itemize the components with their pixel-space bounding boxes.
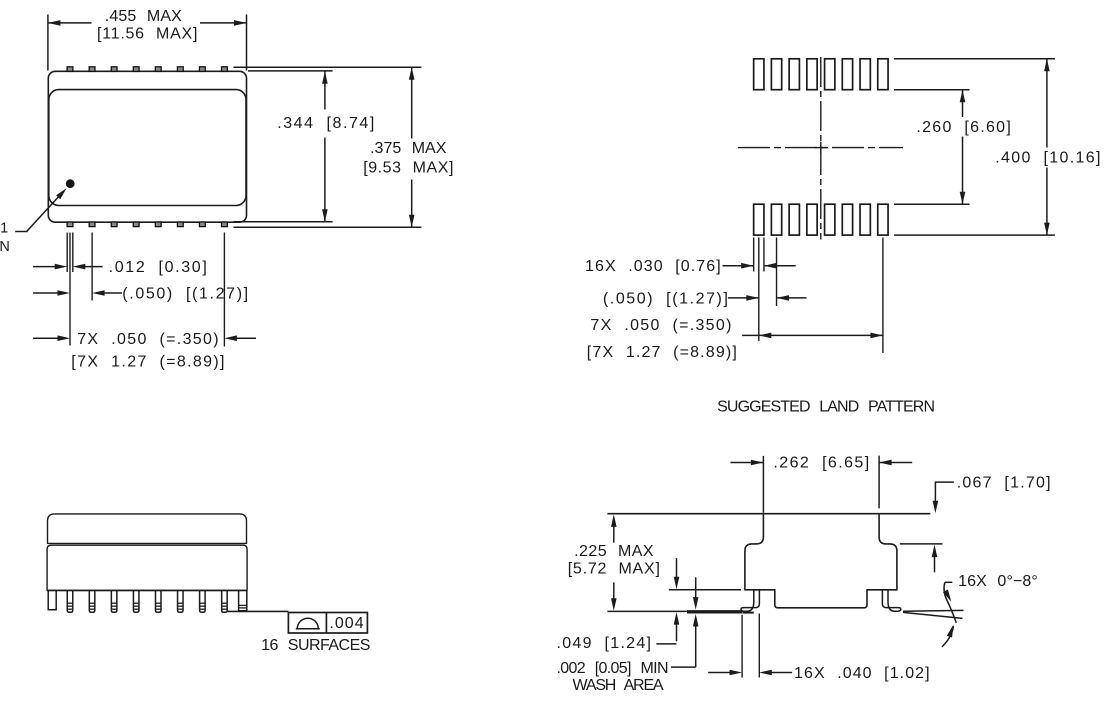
dim .067 leader — [933, 482, 954, 513]
land pattern bottom row pads — [754, 204, 888, 235]
dim .040 text — [794, 665, 930, 682]
dim .002 upper arrow — [693, 577, 699, 609]
dim .040 ext left — [741, 615, 743, 678]
dim .375 dimension line + arrows — [409, 67, 415, 227]
pin 1 identifier dot — [66, 179, 75, 188]
dim .049 text — [557, 635, 652, 652]
dim land 7X 1.27 text — [587, 344, 737, 361]
land ext pad1 left — [753, 238, 755, 272]
svg-text:.262 [6.65]: .262 [6.65] — [773, 455, 869, 472]
land ext line bottom-outer — [894, 234, 1055, 236]
land pattern center cross — [815, 142, 827, 154]
dim .225 lower arrow — [611, 582, 617, 610]
land pattern horizontal centerline — [738, 147, 903, 149]
dim .225 text — [574, 543, 654, 560]
svg-text:16 SURFACES: 16 SURFACES — [261, 637, 370, 654]
svg-text:[5.72 MAX]: [5.72 MAX] — [568, 560, 660, 577]
pin 1 leader arrow — [15, 186, 68, 231]
top view package lid outline — [49, 90, 246, 206]
dim .344 text — [277, 115, 374, 132]
svg-text:[7X 1.27 (=8.89)]: [7X 1.27 (=8.89)] — [71, 354, 224, 371]
side view lid outline — [48, 514, 247, 544]
land pattern top row pads — [754, 59, 888, 90]
dim .455 extension line right — [246, 15, 248, 71]
dim land pitch text — [603, 290, 728, 307]
dim pitch (.050) text — [122, 286, 248, 303]
end view right gull-wing lead — [882, 590, 900, 611]
ext line pad1 left edge — [66, 233, 68, 273]
dim 16X .030 text — [585, 258, 721, 275]
angle dim upper arc — [943, 582, 956, 623]
dim .002 text — [557, 660, 669, 677]
land ext pad1 center — [758, 238, 760, 342]
svg-text:(.050) [(1.27)]: (.050) [(1.27)] — [603, 290, 728, 307]
dim .455 dimension line + arrows — [48, 20, 247, 26]
lead angle 0 deg line — [903, 609, 964, 612]
ext line pad8 center — [223, 233, 225, 347]
dim .455 extension line left — [47, 15, 49, 71]
ext line pad2 center — [91, 233, 93, 301]
svg-text:[7X 1.27 (=8.89)]: [7X 1.27 (=8.89)] — [587, 344, 737, 361]
dim .260 text — [916, 119, 1010, 136]
pin 1 label text (cropped) — [0, 221, 10, 256]
flatness leader line — [227, 610, 288, 612]
dim .344 dimension line + arrows — [322, 71, 328, 222]
dim .260 dimension line + arrows — [960, 90, 966, 205]
dim .455 mm text — [97, 25, 197, 42]
svg-text:.049 [1.24]: .049 [1.24] — [557, 635, 652, 652]
svg-text:.004: .004 — [329, 615, 363, 632]
side view gull-wing pins 1-8 — [67, 590, 227, 612]
dim 7X .050 arrows — [33, 335, 256, 341]
top view pads pins 9-16 (top edge) — [67, 67, 227, 72]
dim .375 text — [370, 140, 447, 157]
dim .002 connector — [671, 666, 696, 668]
svg-text:SUGGESTED LAND PATTERN: SUGGESTED LAND PATTERN — [717, 399, 935, 416]
side view left end pin — [48, 590, 56, 609]
svg-text:.455 MAX: .455 MAX — [105, 8, 182, 25]
dim pitch (.050) arrows — [33, 290, 122, 296]
title SUGGESTED LAND PATTERN — [717, 399, 935, 416]
dim land 7X dimension line + arrows — [742, 333, 883, 339]
dim .400 text — [995, 149, 1100, 166]
dim .067 text — [957, 475, 1051, 492]
dim .225 mm text — [568, 560, 660, 577]
dim .049 connector — [656, 643, 676, 645]
flatness feature control frame — [288, 613, 367, 634]
svg-text:16X 0°−8°: 16X 0°−8° — [958, 573, 1038, 590]
svg-text:.344 [8.74]: .344 [8.74] — [277, 115, 374, 132]
WASH AREA text — [573, 677, 664, 694]
svg-text:(.050) [(1.27)]: (.050) [(1.27)] — [122, 286, 248, 303]
dim .375 extension line top — [234, 66, 422, 68]
lead angle 8 deg line — [903, 612, 963, 618]
dim .262 text — [773, 455, 869, 472]
land ext line top-outer — [894, 58, 1055, 60]
svg-text:.067 [1.70]: .067 [1.70] — [957, 475, 1051, 492]
end view body outline — [745, 514, 897, 608]
dim .262 ext left — [762, 456, 764, 513]
land ext line top-inner — [894, 89, 970, 91]
dim .067 lower arrow — [932, 545, 938, 573]
land pattern vertical centerline — [820, 57, 822, 240]
dim .040 ext right — [758, 614, 760, 678]
wash area thick bar — [687, 610, 754, 614]
angle dim lower arc — [942, 624, 956, 647]
dim land pitch arrows — [728, 295, 807, 301]
side view body outline — [47, 545, 247, 590]
svg-text:[11.56 MAX]: [11.56 MAX] — [97, 25, 197, 42]
16 SURFACES text — [261, 637, 370, 654]
notch extension line — [669, 589, 741, 591]
dim .049 upper arrow — [674, 558, 680, 589]
svg-text:.260 [6.60]: .260 [6.60] — [916, 119, 1010, 136]
side view body bottom line — [47, 589, 247, 591]
end view left gull-wing lead — [741, 590, 759, 611]
dim .400 dimension line + arrows — [1044, 59, 1050, 235]
flatness (profile) symbol — [296, 618, 320, 629]
dim .344 extension line top — [248, 70, 333, 72]
svg-text:.225 MAX: .225 MAX — [574, 543, 654, 560]
dim .344 extension line bottom — [234, 221, 333, 223]
svg-text:.375 MAX: .375 MAX — [370, 140, 447, 157]
svg-text:1: 1 — [0, 221, 8, 237]
dim .049 lower arrow — [674, 612, 680, 641]
top view pads pins 1-8 (bottom edge) — [67, 222, 227, 227]
svg-text:16X .030 [0.76]: 16X .030 [0.76] — [585, 258, 721, 275]
flatness value text — [329, 615, 363, 632]
svg-text:[9.53 MAX]: [9.53 MAX] — [363, 160, 453, 177]
svg-text:N: N — [0, 239, 10, 255]
seating plane line — [607, 610, 742, 612]
land ext pad8 center — [882, 238, 884, 354]
end view top line with extensions — [607, 513, 930, 515]
ext line pad1 center — [69, 233, 71, 346]
dim .012 text — [109, 259, 207, 276]
dim .375 mm text — [363, 160, 453, 177]
ext line pad1 right edge — [72, 233, 74, 273]
dim .375 extension line bottom — [234, 226, 422, 228]
dim .455 text — [105, 8, 182, 25]
side view right end pin — [239, 590, 247, 610]
dim .225 upper arrow — [611, 514, 617, 542]
land ext line bottom-inner — [894, 203, 970, 205]
dim .012 arrows — [33, 264, 103, 270]
top view package body outline — [48, 71, 246, 222]
dim land 7X .050 text — [590, 317, 731, 334]
dim .002 lower arrow — [693, 614, 699, 667]
dim .262 ext right — [878, 456, 880, 509]
svg-text:16X .040 [1.02]: 16X .040 [1.02] — [794, 665, 930, 682]
svg-text:.002 [0.05] MIN: .002 [0.05] MIN — [557, 660, 669, 677]
dim .040 arrows — [708, 670, 792, 676]
angle dim text — [958, 573, 1038, 590]
dim .262 arrows — [730, 460, 912, 466]
svg-text:WASH AREA: WASH AREA — [573, 677, 664, 694]
dim 16X .030 arrows — [723, 263, 796, 269]
land ext pad1 right — [763, 238, 765, 272]
shoulder extension line — [900, 543, 943, 545]
svg-text:.012 [0.30]: .012 [0.30] — [109, 259, 207, 276]
dim 7X .050 text — [77, 331, 218, 348]
land ext pad2 center — [776, 238, 778, 307]
dim 7X 1.27 mm text — [71, 354, 224, 371]
